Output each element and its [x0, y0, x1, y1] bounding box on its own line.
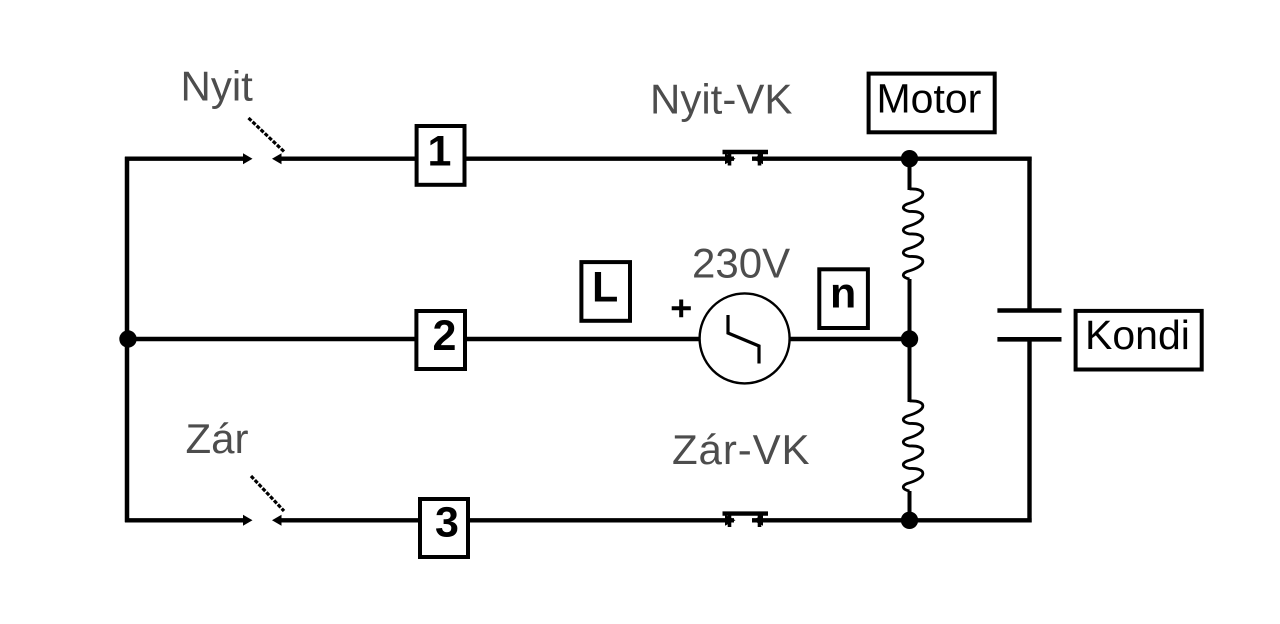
wire: capacitor branch upper [1027, 157, 1031, 311]
node: motor top junction [901, 150, 918, 167]
box terminal L [581, 262, 630, 321]
wire: top line from box 1 to Nyit-VK contact [465, 156, 735, 160]
wire: middle line from box 2 to source circle [465, 337, 700, 341]
contact Zar-VK left tick [728, 514, 732, 527]
switch Nyit right arrowhead [272, 153, 282, 164]
box contact 2 [416, 311, 465, 369]
node: motor bottom junction [901, 512, 918, 529]
inductor motor winding lower [903, 401, 923, 491]
wire: motor branch upper stub [908, 159, 912, 190]
wire: middle line from rail to box 2 [127, 337, 416, 341]
inductor motor winding upper [903, 189, 923, 279]
svg-text:230V: 230V [692, 240, 790, 287]
switch Zar left arrowhead [243, 515, 253, 526]
wire: motor branch bottom stub [908, 491, 912, 520]
contact Zar-VK right tick [758, 514, 762, 527]
svg-text:Zár: Zár [186, 415, 249, 462]
wire: bottom line from switch to box 3 [279, 518, 420, 522]
svg-text:Nyit: Nyit [181, 63, 254, 110]
svg-text:1: 1 [428, 127, 452, 175]
contact Nyit-VK left arrowhead [725, 153, 736, 164]
capacitor top plate [997, 308, 1061, 313]
svg-text:n: n [830, 270, 856, 318]
wire: motor branch middle lower stub [908, 339, 912, 402]
switch Nyit blade [249, 118, 286, 153]
contact Nyit-VK right arrowhead [753, 153, 764, 164]
source circle U1 [700, 293, 790, 383]
wire: motor branch middle upper stub [908, 279, 912, 339]
contact Zar-VK right arrowhead [753, 515, 764, 526]
svg-text:Motor: Motor [877, 76, 982, 122]
box Kondi [1076, 311, 1202, 370]
contact Zar-VK bar [723, 511, 769, 515]
wire: top line from Nyit-VK to capacitor branch corner [752, 156, 1032, 160]
contact Nyit-VK bar [723, 150, 769, 154]
contact Nyit-VK right tick [758, 152, 762, 166]
wire: bottom line from box 3 to Zar-VK contact [468, 518, 734, 522]
wire: left vertical rail [125, 157, 130, 523]
capacitor bottom plate [997, 337, 1061, 342]
wire: bottom line from Zar-VK to capacitor branch corner [752, 518, 1032, 522]
contact Zar-VK left arrowhead [725, 515, 736, 526]
box terminal n [819, 269, 868, 328]
node: motor middle junction [901, 330, 918, 347]
svg-text:Nyit-VK: Nyit-VK [650, 76, 792, 123]
svg-text:Kondi: Kondi [1085, 312, 1190, 358]
wire: capacitor branch lower [1027, 339, 1031, 522]
contact Nyit-VK left tick [728, 152, 732, 166]
wire: middle line from source circle to motor node [789, 337, 910, 341]
svg-text:Zár-VK: Zár-VK [672, 426, 810, 473]
source plus sign [672, 300, 691, 318]
switch Zar blade [251, 476, 284, 511]
wire: top line left segment [125, 156, 244, 160]
svg-text:2: 2 [433, 312, 457, 360]
svg-text:3: 3 [435, 499, 459, 547]
box contact 3 [420, 499, 468, 557]
wire: top line from switch to box 1 [279, 156, 416, 160]
switch Zar right arrowhead [272, 515, 282, 526]
source waveform symbol [728, 315, 759, 364]
box Motor [869, 74, 995, 133]
box contact 1 [417, 126, 465, 185]
svg-text:L: L [592, 264, 618, 312]
wire: bottom line left segment [125, 518, 244, 522]
node: rail-middle junction [119, 330, 136, 347]
switch Nyit left arrowhead [243, 153, 253, 164]
